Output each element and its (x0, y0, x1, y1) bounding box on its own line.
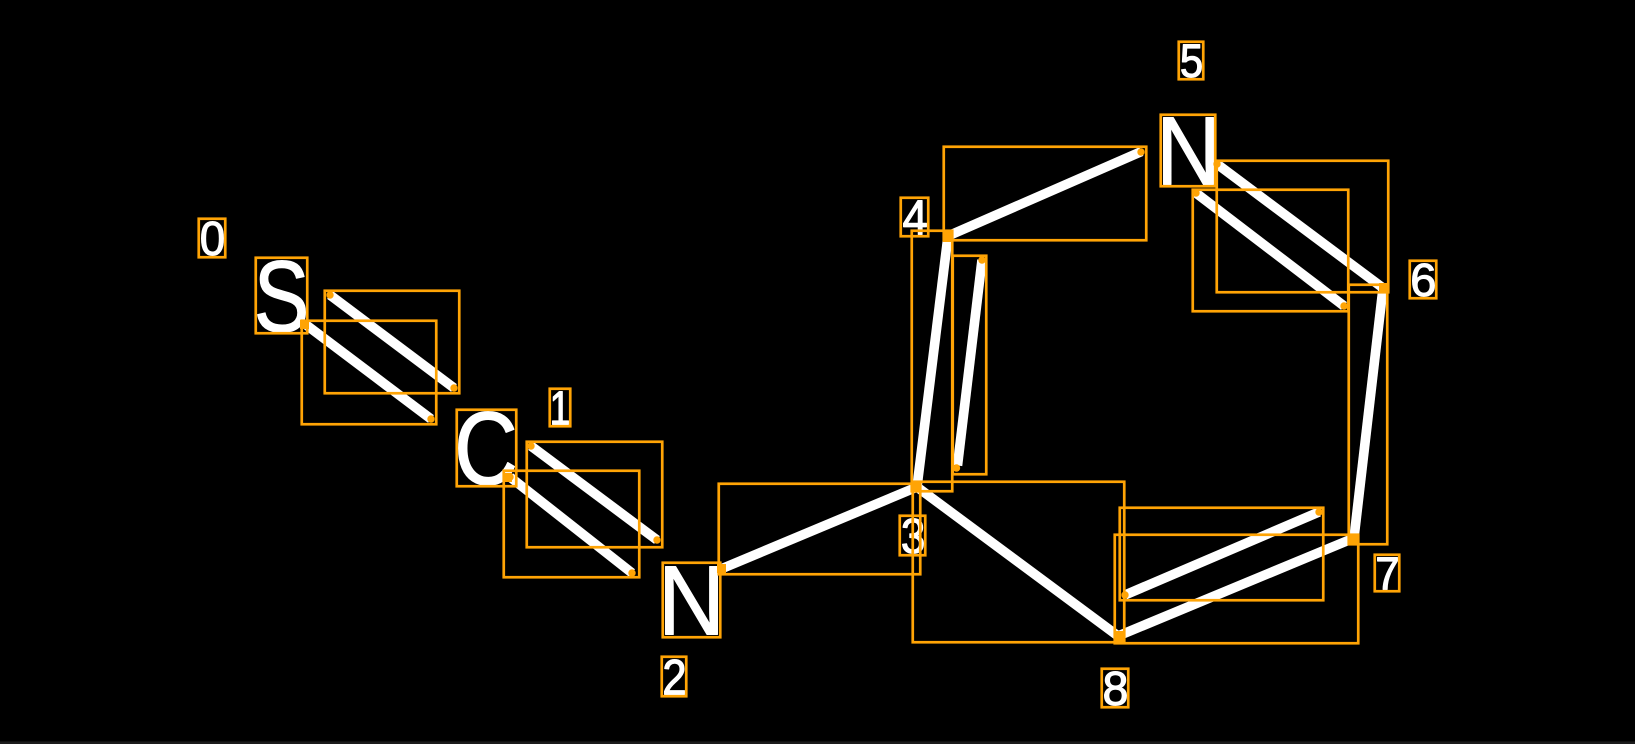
bbox atom N5 (1161, 115, 1216, 187)
anchor square C6 (1379, 283, 1388, 293)
bbox bond N2-C3 (719, 484, 921, 575)
atom S0 glyph (258, 261, 306, 333)
bbox label 8 (1102, 669, 1129, 708)
bbox label 0 (199, 219, 226, 258)
bbox label 3 (900, 516, 926, 556)
anchor square C7 (1348, 534, 1357, 544)
bbox bond N5=C6 main (1217, 161, 1389, 293)
bond C3=C4 main (917, 236, 948, 487)
bond C8-C3 (917, 487, 1118, 636)
bond C6-C7 (1354, 288, 1383, 538)
bbox bond N5=C6 inner (1193, 190, 1349, 312)
bbox atom S0 (256, 258, 308, 334)
index label 1 digit (553, 392, 569, 425)
atom N5 glyph (1164, 118, 1214, 185)
bbox bond S0=C1 line A (325, 291, 460, 394)
bond N5=C6 main (1217, 164, 1383, 288)
bbox bond C3=C4 main (912, 231, 953, 492)
bond S0=C1 line B (305, 324, 431, 419)
bbox label 7 (1375, 555, 1400, 592)
index label 6 digit (1413, 264, 1435, 297)
bottom window edge strip (0, 741, 1635, 744)
bbox bond C1=N2 line A (527, 442, 663, 548)
bond N2-C3 (721, 487, 917, 569)
anchor square C1 (503, 473, 512, 482)
bbox label 1 (550, 389, 571, 427)
bbox label 5 (1179, 42, 1204, 80)
bbox atom C1 (457, 410, 517, 487)
bond N5=C6 inner (1196, 193, 1344, 306)
bond C1=N2 line B (510, 477, 632, 573)
anchor square S0 (300, 320, 309, 329)
index label 3 digit (903, 519, 924, 554)
anchor square C4 (943, 231, 954, 243)
index label 7 digit (1378, 558, 1398, 590)
bond S0=C1 line A (330, 295, 454, 388)
anchor square C3 (912, 482, 921, 491)
anchor square C8 (1114, 631, 1124, 641)
bbox label 4 (901, 198, 929, 237)
bond C3=C4 inner (958, 260, 983, 466)
bbox bond C1=N2 line B (504, 471, 640, 578)
index label 4 digit (904, 201, 927, 235)
bbox bond C7=C8 inner (1120, 508, 1324, 601)
bbox bond S0=C1 line B (302, 321, 437, 425)
bbox bond C3=C4 inner (953, 256, 987, 475)
bond C7=C8 inner (1125, 512, 1319, 595)
index label 0 digit (202, 222, 224, 256)
bbox label 2 (662, 657, 687, 697)
index label 5 digit (1182, 45, 1202, 78)
anchor square N2 (717, 564, 726, 573)
bbox bond C7=C8 main (1115, 535, 1359, 644)
bond C1=N2 line A (531, 446, 657, 540)
bbox bond C8-C3 (913, 482, 1125, 643)
index label 2 digit (665, 660, 685, 695)
bond C7=C8 main (1118, 538, 1354, 636)
bond endpoint dots (326, 291, 333, 298)
atom C1 glyph (459, 412, 515, 486)
bbox atom N2 (663, 563, 721, 638)
bbox label 6 (1410, 261, 1437, 299)
atom N2 glyph (666, 567, 718, 635)
bond C4-N5 (948, 152, 1142, 237)
bbox bond C4-N5 (944, 147, 1147, 241)
index label 8 digit (1105, 672, 1127, 706)
bbox bond C6-C7 (1349, 285, 1388, 545)
